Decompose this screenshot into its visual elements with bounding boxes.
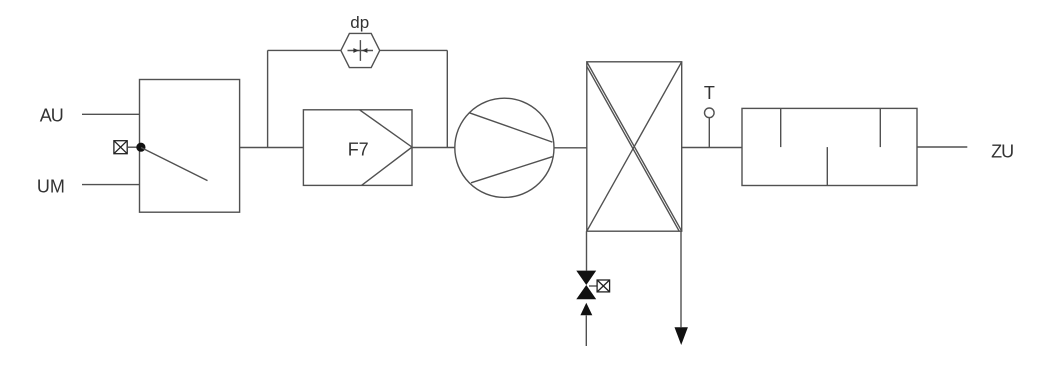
fan blade chords (469, 113, 552, 183)
silencer baffle 2 (879, 108, 881, 147)
wire AU inlet (82, 113, 140, 115)
flow arrow down (heating return) (675, 327, 688, 345)
temperature sensor T bulb (705, 108, 715, 118)
flow arrow up (heating inlet) (580, 303, 592, 316)
node AU (outdoor air label) (40, 106, 63, 126)
svg-text:dp: dp (350, 13, 369, 32)
damper actuator (crossed box) (114, 141, 127, 154)
pipe heating inlet stem (585, 315, 587, 346)
heat exchanger diagonal (single) (587, 62, 682, 231)
wire actuator link (127, 146, 137, 148)
svg-text:AU: AU (40, 106, 63, 126)
filter label F7 (348, 139, 369, 159)
junction dot (damper pivot) (136, 143, 145, 152)
valve actuator link (589, 285, 597, 287)
temperature sensor T stem (708, 118, 710, 148)
valve V1 (two filled triangles) (576, 271, 596, 300)
fan (supply fan circle) (455, 98, 554, 197)
temperature sensor label T (704, 83, 715, 103)
silencer baffle 3 (826, 147, 828, 185)
damper blade (141, 148, 208, 181)
mixing box K1 (140, 80, 240, 213)
node UM (recirculation air label) (37, 177, 65, 197)
wire dp bypass top right (380, 49, 448, 51)
wire fan to heat exchanger (554, 147, 587, 149)
heat exchanger diagonal (double) (587, 62, 682, 231)
filter F7 box (303, 110, 412, 186)
silencer baffle 1 (780, 108, 782, 147)
wire heat exchanger to silencer (682, 147, 742, 149)
wire dp bypass left vertical (267, 50, 269, 147)
valve actuator (crossed box) (597, 280, 610, 292)
wire UM inlet (82, 184, 140, 186)
wire dp bypass right vertical (446, 50, 448, 147)
dp label (350, 13, 369, 32)
silencer box (742, 108, 917, 185)
svg-text:T: T (704, 83, 715, 103)
heat exchanger box (587, 62, 682, 231)
pipe heating return (right, down from exchanger) (680, 231, 682, 327)
dp sensor (differential pressure, hexagon) (341, 33, 380, 67)
wire dp bypass top left (268, 49, 341, 51)
node ZU (supply air label) (991, 142, 1013, 162)
wire silencer to outlet (917, 146, 967, 148)
wire filter to fan (412, 147, 455, 149)
dp sensor internal symbol (348, 40, 374, 61)
svg-text:UM: UM (37, 177, 65, 197)
pipe heating supply (left, down from exchanger) (586, 231, 588, 270)
wire mixing box to filter (240, 147, 304, 149)
svg-text:ZU: ZU (991, 142, 1013, 162)
filter wedge symbol (360, 110, 413, 186)
svg-text:F7: F7 (348, 139, 369, 159)
